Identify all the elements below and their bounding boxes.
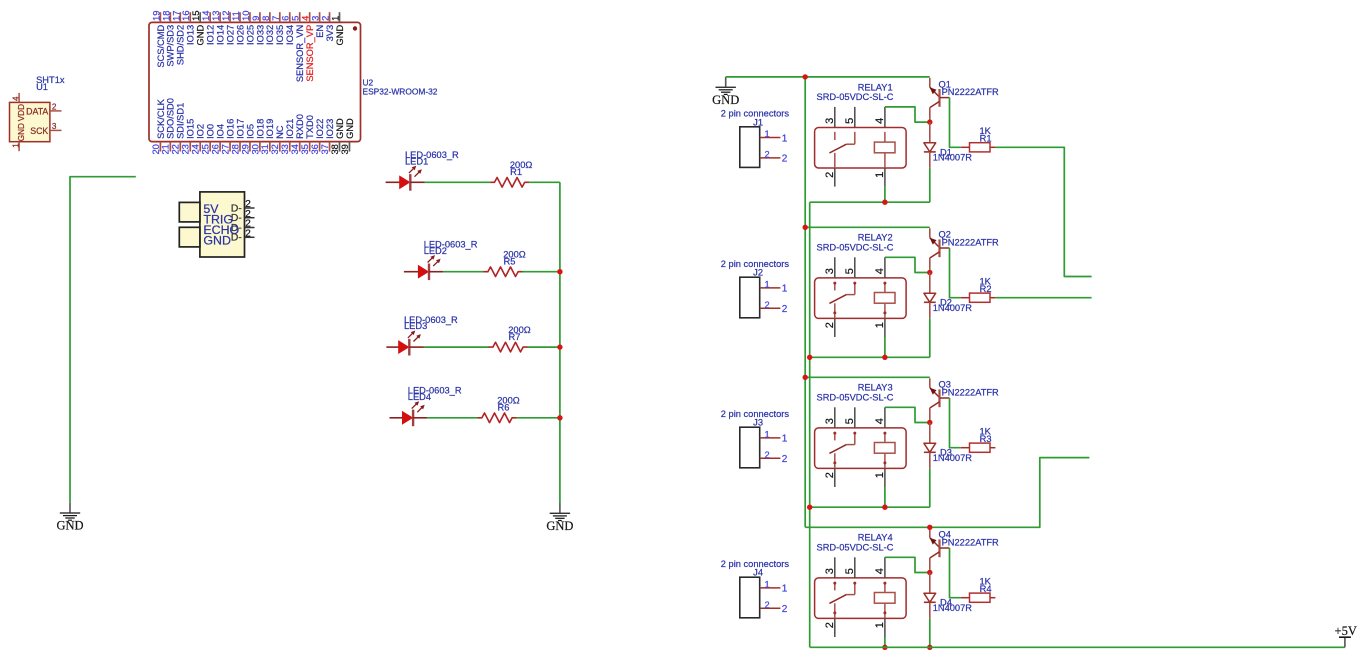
ultrasonic pin 3 D-	[231, 219, 255, 234]
wire resistor R1 to bus	[529, 181, 560, 183]
svg-text:3V3: 3V3	[325, 25, 335, 42]
relay 1 pin 2 (bottom)	[824, 168, 836, 187]
svg-text:TXD0: TXD0	[305, 115, 315, 139]
wire GND rail relay3	[805, 376, 930, 378]
svg-text:1: 1	[782, 133, 788, 144]
connector J3 body	[740, 427, 760, 468]
svg-text:R4: R4	[980, 584, 992, 594]
label R1 1K	[980, 126, 992, 144]
ESP32 module U2 body	[149, 22, 361, 141]
ESP32 pin 24 IO2 (bottom)	[190, 124, 206, 155]
svg-text:J3: J3	[753, 418, 763, 428]
ESP32 pin 6 IO34 (top)	[280, 12, 295, 45]
ESP32 pin 31 IO19 (bottom)	[259, 119, 275, 155]
svg-text:4: 4	[874, 568, 886, 574]
relay 3 pin end dots	[833, 432, 886, 465]
svg-text:1: 1	[11, 143, 20, 148]
svg-text:1: 1	[765, 279, 770, 289]
svg-text:PN2222ATFR: PN2222ATFR	[942, 538, 999, 548]
junction dot relay2 pin1 bottom	[882, 355, 887, 360]
relay 4 contact	[829, 582, 854, 618]
svg-text:R7: R7	[509, 332, 521, 342]
svg-text:4: 4	[874, 118, 886, 124]
ESP32 pin 14 IO12 (top)	[200, 10, 215, 44]
svg-text:NC: NC	[275, 125, 285, 139]
svg-text:R5: R5	[504, 257, 516, 267]
ESP32 pin 30 IO18 (bottom)	[249, 119, 265, 155]
svg-text:IO2: IO2	[196, 124, 206, 139]
svg-text:2: 2	[824, 322, 836, 328]
svg-text:2: 2	[52, 102, 57, 111]
wire diode D3 down	[929, 468, 931, 507]
svg-text:IO23: IO23	[325, 119, 335, 139]
ESP32 pin 39 GND (bottom)	[339, 118, 355, 155]
diode D4 1N4007R	[924, 573, 936, 619]
svg-text:GND: GND	[56, 519, 83, 533]
label LED4	[408, 386, 462, 402]
svg-text:SWP/SD3: SWP/SD3	[166, 25, 176, 67]
svg-text:IO33: IO33	[255, 25, 265, 45]
svg-text:GND: GND	[546, 519, 573, 533]
relay 3 pin 5 (top)	[844, 407, 856, 428]
ESP32 pin 4 SENSOR_VP (top)	[300, 12, 315, 81]
relay 1 pin 1 (bottom)	[874, 168, 886, 187]
svg-text:R2: R2	[980, 284, 992, 294]
svg-text:DATA: DATA	[26, 106, 48, 116]
relay 4 pin 1 (bottom)	[874, 618, 886, 637]
relay 4 pin end dots	[833, 582, 886, 615]
svg-text:IO22: IO22	[315, 119, 325, 139]
GND rail vertical	[804, 77, 806, 527]
svg-text:2: 2	[782, 304, 788, 315]
ESP32 pin 10 IO25 (top)	[240, 10, 255, 44]
ESP32 pin 16 IO13 (top)	[180, 10, 195, 44]
svg-text:1N4007R: 1N4007R	[933, 603, 973, 613]
ESP32 pin 17 SHD/SD2 (top)	[170, 10, 185, 65]
svg-text:IO18: IO18	[255, 119, 265, 139]
resistor R4 (1K)	[961, 593, 996, 602]
resistor R5 zigzag	[484, 267, 523, 277]
svg-text:GND: GND	[203, 234, 231, 248]
svg-text:1: 1	[874, 322, 886, 328]
svg-text:IO0: IO0	[206, 124, 216, 139]
wire R2 output	[995, 297, 1091, 299]
ESP32 pin 38 GND (bottom)	[329, 118, 345, 155]
label R2 1K	[980, 277, 992, 295]
wire relay3 bottom (+5V)	[810, 506, 930, 508]
wire diode D2 down	[929, 318, 931, 357]
svg-text:2: 2	[765, 300, 770, 310]
ESP32 pin 5 SENSOR_VN (top)	[290, 12, 305, 82]
svg-text:GND: GND	[335, 118, 345, 139]
svg-text:1N4007R: 1N4007R	[933, 153, 973, 163]
ESP32 pin 33 IO21 (bottom)	[279, 119, 295, 155]
wire LED LED3 to resistor	[424, 346, 489, 348]
wire Q3 base to R3	[950, 398, 961, 448]
wire relay1 bottom (+5V)	[810, 201, 930, 203]
svg-text:1: 1	[330, 16, 341, 21]
svg-text:LED4: LED4	[408, 392, 431, 402]
svg-text:R1: R1	[980, 134, 992, 144]
wire relay2 pin4 to junction	[885, 257, 930, 272]
svg-text:R6: R6	[498, 403, 510, 413]
relay 2 pin 4 (top)	[874, 257, 886, 278]
ESP32 pin 12 IO27 (top)	[220, 10, 235, 44]
svg-text:SENSOR_VN: SENSOR_VN	[295, 25, 305, 82]
diode D3 1N4007R	[924, 423, 936, 469]
wire collector junction 2	[929, 269, 931, 272]
wire resistor R6 to bus	[517, 417, 560, 419]
svg-text:LED1: LED1	[405, 156, 428, 166]
relay 3 coil	[874, 432, 895, 468]
wire relay4 pin1 down to +5V rail	[884, 637, 886, 647]
ESP32 pin 27 IO16 (bottom)	[219, 119, 235, 155]
ESP32 pin 20 SCK/CLK (bottom)	[150, 98, 166, 154]
relay 2 pin 1 (bottom)	[874, 318, 886, 337]
svg-text:LED3: LED3	[404, 321, 427, 331]
transistor Q2 PN2222ATFR	[930, 228, 950, 269]
svg-text:2: 2	[824, 622, 836, 628]
svg-text:2: 2	[824, 472, 836, 478]
label D4	[933, 598, 973, 613]
connector J1 body	[740, 127, 760, 168]
svg-text:RXD0: RXD0	[295, 114, 305, 139]
junction dot Q4 collector	[927, 570, 932, 575]
svg-text:1: 1	[782, 284, 788, 295]
relay 3 pin 2 (bottom)	[824, 468, 836, 487]
svg-text:LED2: LED2	[424, 246, 447, 256]
junction dot bus row3	[557, 344, 562, 349]
LED GND bus vertical	[559, 182, 561, 503]
svg-text:4: 4	[874, 418, 886, 424]
connector J1 pin 1	[760, 129, 788, 144]
relay 2 pin 3 (top)	[824, 257, 836, 278]
ground bus	[546, 503, 573, 533]
ESP32 pin 22 SDI/SD1 (bottom)	[170, 103, 186, 155]
svg-text:VDD: VDD	[17, 104, 26, 121]
relay 2 pin 5 (top)	[844, 257, 856, 278]
svg-text:GND: GND	[712, 93, 739, 107]
U1 pin 3 SCK	[30, 122, 61, 136]
label D3	[933, 448, 973, 463]
svg-text:1: 1	[765, 429, 770, 439]
svg-text:IO27: IO27	[225, 25, 235, 45]
wire R1 output	[995, 147, 1091, 276]
svg-text:IO12: IO12	[206, 25, 216, 45]
svg-text:IO35: IO35	[275, 25, 285, 45]
label D2	[933, 298, 973, 313]
connector J2 pin 2	[760, 300, 788, 315]
wire left vertical to GND	[70, 177, 136, 503]
connector J4 body	[740, 577, 760, 618]
ESP32 refdes U2	[363, 78, 438, 97]
relay 1 coil	[874, 132, 895, 168]
svg-text:IO14: IO14	[216, 25, 226, 45]
ESP32 pin 28 IO17 (bottom)	[229, 119, 245, 155]
svg-text:3: 3	[52, 122, 57, 131]
transistor Q1 PN2222ATFR	[930, 78, 950, 119]
wire collector junction 4	[929, 569, 931, 572]
ground top	[712, 77, 739, 107]
relay 3 pin 4 (top)	[874, 407, 886, 428]
svg-text:1: 1	[874, 622, 886, 628]
wire GND rail relay1	[726, 76, 930, 78]
svg-text:2: 2	[245, 228, 251, 239]
svg-text:SENSOR_VP: SENSOR_VP	[305, 25, 315, 82]
connector J3 pin 1	[760, 429, 788, 444]
resistor R6 zigzag	[478, 413, 517, 423]
ESP32 pin 8 IO32 (top)	[260, 12, 275, 45]
svg-text:IO25: IO25	[245, 25, 255, 45]
wire resistor R5 to bus	[523, 271, 560, 273]
wire Q4 base to R4	[950, 548, 961, 598]
wire collector junction 1	[929, 119, 931, 122]
ESP32 pin 19 SCS/CMD (top)	[150, 10, 165, 67]
label LED1	[405, 150, 459, 166]
relay 3 pin 1 (bottom)	[874, 468, 886, 487]
svg-text:1: 1	[874, 172, 886, 178]
label D1	[933, 147, 973, 162]
label R6 200ohm	[497, 396, 520, 413]
svg-text:U1: U1	[36, 82, 48, 92]
ultrasonic pin 4 D-	[231, 228, 255, 243]
wire collector junction 3	[929, 419, 931, 422]
sensor U1 SHT1x labels	[36, 75, 65, 92]
ESP32 orientation dot	[353, 26, 357, 30]
junction dot Q3 collector	[927, 420, 932, 425]
svg-text:SCS/CMD: SCS/CMD	[156, 25, 166, 68]
relay RELAY2 body	[815, 278, 907, 319]
LED LED2	[404, 255, 443, 280]
svg-text:IO32: IO32	[265, 25, 275, 45]
connector J1 labels	[721, 109, 790, 128]
svg-text:GND: GND	[196, 25, 206, 46]
relay 3 pin 3 (top)	[824, 407, 836, 428]
power +5V symbol	[1335, 624, 1357, 647]
svg-text:3: 3	[824, 268, 836, 274]
svg-text:2: 2	[765, 450, 770, 460]
connector J2 pin 1	[760, 279, 788, 294]
ESP32 pin 35 TXD0 (bottom)	[299, 115, 315, 154]
svg-text:IO4: IO4	[216, 124, 226, 139]
relay RELAY4 body	[815, 578, 907, 619]
ground left	[56, 503, 83, 533]
wire LED LED4 to resistor	[427, 417, 477, 419]
junction dot D4	[927, 645, 932, 650]
svg-text:GND: GND	[17, 123, 26, 141]
label LED3	[404, 315, 458, 331]
svg-text:5: 5	[844, 418, 856, 424]
ESP32 pin 3 EN (top)	[310, 12, 325, 38]
relay 4 pin 4 (top)	[874, 557, 886, 578]
svg-text:SCK/CLK: SCK/CLK	[156, 98, 166, 139]
svg-text:GND: GND	[345, 118, 355, 139]
label R4 1K	[980, 577, 992, 595]
svg-text:4: 4	[874, 268, 886, 274]
svg-text:RELAY1: RELAY1	[858, 82, 893, 92]
ESP32 pin 1 GND (top)	[330, 12, 345, 45]
svg-text:IO16: IO16	[225, 119, 235, 139]
svg-text:J4: J4	[753, 568, 763, 578]
wire GND rail relay2	[805, 226, 930, 228]
label R3 1K	[980, 427, 992, 445]
ESP32 pin 18 SWP/SD3 (top)	[160, 10, 175, 66]
wire GND rail relay4 with extension	[805, 458, 1089, 528]
label Q2	[939, 230, 1000, 248]
ESP32 pin 21 SDO/SD0 (bottom)	[160, 98, 176, 154]
junction dot bus row4	[557, 415, 562, 420]
svg-text:2: 2	[782, 604, 788, 615]
+5V rail vertical	[809, 202, 811, 647]
ESP32 pin 32 NC (bottom)	[269, 125, 285, 154]
wire relay2 bottom (+5V)	[810, 356, 930, 358]
relay RELAY3 body	[815, 428, 907, 469]
wire relay3 pin4 to junction	[885, 407, 930, 422]
svg-text:IO21: IO21	[285, 119, 295, 139]
junction dot +5V rail 3	[807, 505, 812, 510]
ESP32 pin 13 IO14 (top)	[210, 10, 225, 44]
relay 4 coil	[874, 582, 895, 618]
ESP32 pin 2 3V3 (top)	[320, 12, 335, 41]
relay 1 contact	[829, 132, 854, 168]
svg-text:1: 1	[782, 584, 788, 595]
relay RELAY4 labels	[817, 533, 894, 553]
svg-text:SRD-05VDC-SL-C: SRD-05VDC-SL-C	[817, 243, 894, 253]
svg-text:SRD-05VDC-SL-C: SRD-05VDC-SL-C	[817, 393, 894, 403]
svg-text:1: 1	[765, 129, 770, 139]
junction dot relay3 pin1 bottom	[882, 505, 887, 510]
wire Q2 base to R2	[950, 248, 961, 298]
junction dot bus row2	[557, 269, 562, 274]
ESP32 pin 23 IO15 (bottom)	[180, 119, 196, 155]
svg-text:SDO/SD0: SDO/SD0	[166, 98, 176, 139]
label R1 200ohm	[510, 160, 533, 177]
diode D2 1N4007R	[924, 273, 936, 319]
junction dot relay4 pin1	[882, 645, 887, 650]
resistor R1 (1K)	[961, 143, 996, 152]
relay 1 pin 5 (top)	[844, 107, 856, 128]
wire resistor R7 to bus	[528, 346, 560, 348]
ESP32 pin 37 IO23 (bottom)	[319, 119, 335, 155]
wire diode D1 down	[929, 168, 931, 202]
svg-text:2: 2	[765, 149, 770, 159]
resistor R3 (1K)	[961, 443, 996, 452]
connector J3 labels	[721, 409, 790, 428]
ESP32 pin 25 IO0 (bottom)	[200, 124, 216, 155]
wire relay1 pin4 to junction	[885, 107, 930, 122]
relay 4 pin 5 (top)	[844, 557, 856, 578]
relay 4 pin 2 (bottom)	[824, 618, 836, 637]
connector J4 pin 1	[760, 579, 788, 594]
svg-text:2: 2	[782, 454, 788, 465]
connector J4 pin 2	[760, 600, 788, 615]
ESP32 pin 29 IO5 (bottom)	[239, 124, 255, 155]
label R5 200ohm	[503, 250, 526, 267]
ESP32 pin 15 GND (top)	[190, 10, 205, 45]
svg-text:J1: J1	[753, 117, 763, 127]
svg-text:2: 2	[782, 154, 788, 165]
LED LED1	[386, 166, 425, 191]
junction dot GND rail 2	[803, 225, 808, 230]
ESP32 pin 7 IO35 (top)	[270, 12, 285, 45]
svg-text:SHD/SD2: SHD/SD2	[176, 25, 186, 65]
ultrasonic pin 1 D-	[231, 199, 255, 214]
svg-text:39: 39	[339, 144, 350, 154]
transistor Q3 PN2222ATFR	[930, 378, 950, 419]
svg-text:IO34: IO34	[285, 25, 295, 45]
svg-text:IO15: IO15	[186, 119, 196, 139]
junction dot GND rail 3	[803, 375, 808, 380]
relay RELAY1 labels	[817, 82, 894, 102]
relay 1 pin 4 (top)	[874, 107, 886, 128]
svg-text:2: 2	[765, 600, 770, 610]
svg-text:J2: J2	[753, 268, 763, 278]
relay 1 pin 3 (top)	[824, 107, 836, 128]
svg-text:ESP32-WROOM-32: ESP32-WROOM-32	[363, 87, 438, 97]
svg-text:5: 5	[844, 568, 856, 574]
transistor Q4 PN2222ATFR	[930, 528, 950, 569]
connector J3 pin 2	[760, 450, 788, 465]
diode D1 1N4007R	[924, 122, 936, 168]
connector J1 pin 2	[760, 149, 788, 164]
relay 2 pin end dots	[833, 282, 886, 315]
wire diode D4 down to +5V rail	[929, 618, 931, 647]
junction dot GND rail 1	[803, 74, 808, 79]
svg-text:SCK: SCK	[30, 126, 48, 136]
svg-text:3: 3	[824, 118, 836, 124]
connector J2 labels	[721, 259, 790, 278]
relay 4 pin 3 (top)	[824, 557, 836, 578]
wire relay3 pin1 down	[884, 487, 886, 507]
svg-text:3: 3	[824, 418, 836, 424]
svg-text:IO13: IO13	[186, 25, 196, 45]
ESP32 pin 26 IO4 (bottom)	[210, 124, 226, 155]
U1 VDD / GND pin names	[17, 104, 26, 141]
LED LED3	[386, 331, 423, 356]
relay RELAY2 labels	[817, 233, 894, 253]
svg-text:RELAY4: RELAY4	[858, 533, 893, 543]
svg-text:RELAY2: RELAY2	[858, 233, 893, 243]
U1 pin 1 (bottom)	[11, 142, 20, 152]
svg-text:1N4007R: 1N4007R	[933, 453, 973, 463]
svg-text:1: 1	[765, 579, 770, 589]
label LED2	[424, 240, 478, 256]
svg-text:1: 1	[874, 472, 886, 478]
U1 pin 2 DATA	[26, 102, 61, 116]
relay 2 coil	[874, 282, 895, 318]
svg-text:R1: R1	[510, 167, 522, 177]
ESP32 pin 34 RXD0 (bottom)	[289, 114, 305, 154]
ESP32 pin 36 IO22 (bottom)	[309, 119, 325, 155]
label R7 200ohm	[508, 325, 531, 342]
svg-text:GND: GND	[335, 25, 345, 46]
junction dot Q2 collector	[927, 270, 932, 275]
svg-text:SDI/SD1: SDI/SD1	[176, 103, 186, 139]
wire relay4 pin4 to junction	[885, 557, 930, 572]
svg-text:SRD-05VDC-SL-C: SRD-05VDC-SL-C	[817, 543, 894, 553]
ESP32 pin 11 IO26 (top)	[230, 11, 245, 45]
wire +5V bottom rail	[810, 646, 1345, 648]
ultrasonic pin 2 D-	[231, 209, 255, 224]
ESP32 pin 9 IO33 (top)	[250, 12, 265, 45]
svg-text:4: 4	[11, 96, 20, 101]
svg-text:2: 2	[824, 172, 836, 178]
wire LED LED1 to resistor	[425, 181, 491, 183]
svg-text:EN: EN	[315, 25, 325, 38]
relay RELAY1 body	[815, 128, 907, 169]
sensor U1 SHT1x body	[10, 102, 50, 141]
svg-text:1N4007R: 1N4007R	[933, 303, 973, 313]
